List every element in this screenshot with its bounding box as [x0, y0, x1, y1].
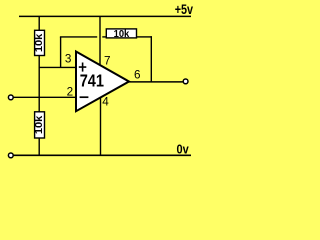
wire +5v top rail [19, 15, 191, 17]
svg-text:4: 4 [102, 96, 109, 109]
terminal input (pin2) [8, 95, 13, 100]
svg-text:10k: 10k [34, 33, 45, 52]
svg-text:0v: 0v [177, 141, 190, 156]
wire divider vertical top (rail to R1) [38, 16, 40, 31]
svg-text:6: 6 [134, 68, 141, 81]
wire 0v bottom rail [13, 154, 191, 156]
svg-text:741: 741 [80, 71, 104, 91]
terminal output [183, 79, 188, 84]
wire pin2 input line [13, 96, 77, 98]
resistor R3 10k feedback [106, 29, 136, 40]
wire feedback horizontal (after crossing break) [102, 36, 106, 38]
wire feedback vertical (pin3 node up) [60, 37, 62, 68]
op-amp plus input symbol [79, 63, 87, 72]
svg-text:10k: 10k [34, 115, 45, 134]
wire divider vertical mid (pin3 node down across pin2 wire to R2) [38, 67, 40, 111]
wire feedback horizontal left (to R3, crossing pin7 line) [60, 36, 97, 38]
wire output line [129, 81, 184, 83]
wire feedback horizontal right (R3 to output drop) [137, 36, 152, 38]
svg-text:3: 3 [65, 53, 72, 66]
svg-text:2: 2 [67, 85, 74, 98]
op-amp minus input symbol [80, 96, 89, 98]
terminal 0v [8, 153, 13, 158]
wire pin3 input line [39, 66, 77, 68]
wire pin7 supply vertical [99, 16, 101, 65]
svg-text:10k: 10k [114, 29, 130, 40]
resistor R1 10k [34, 30, 45, 55]
wire R1 bottom to pin3 node [38, 56, 40, 69]
op-amp U1 triangle 741 [76, 52, 129, 112]
wire feedback drop to output node [150, 36, 152, 82]
svg-text:+5v: +5v [175, 2, 194, 17]
svg-text:7: 7 [104, 54, 111, 67]
wire R2 bottom to 0v rail [38, 138, 40, 155]
resistor R2 10k [34, 112, 45, 138]
wire pin4 ground vertical [100, 98, 102, 156]
